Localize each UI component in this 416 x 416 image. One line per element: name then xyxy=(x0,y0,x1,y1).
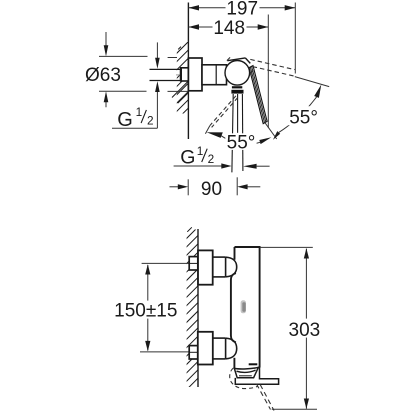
svg-text:303: 303 xyxy=(289,320,321,341)
angle 55 lower arc xyxy=(221,135,261,144)
svg-text:2: 2 xyxy=(147,114,154,128)
label 55deg upper xyxy=(286,106,321,125)
svg-text:Ø63: Ø63 xyxy=(85,65,121,86)
escutcheon upper (front) xyxy=(198,250,213,284)
outlet bracket xyxy=(235,367,278,384)
svg-text:55°: 55° xyxy=(227,132,256,153)
inlet pipe line lower xyxy=(140,351,189,353)
wall hatch (front view) xyxy=(182,223,202,394)
G 1/2 right-side arrow on outlet xyxy=(243,164,257,169)
svg-text:G: G xyxy=(117,109,133,131)
svg-text:G: G xyxy=(180,147,195,169)
shower outlet pipe lines xyxy=(232,94,233,172)
angle 55 upper extension line xyxy=(295,77,329,87)
body bottom-left edge xyxy=(233,358,235,369)
dimension G 1/2 (lower label) xyxy=(180,144,214,169)
label 55deg lower xyxy=(225,133,256,150)
cartridge dome circle xyxy=(225,61,250,86)
flange escutcheon (top view) xyxy=(188,58,202,91)
dimension 197 xyxy=(188,0,295,74)
hex union (top view) xyxy=(181,68,189,81)
wall hatch (top view) xyxy=(172,38,192,124)
dashed water stream xyxy=(257,384,275,411)
lever tip extension line xyxy=(265,123,277,140)
svg-text:148: 148 xyxy=(213,18,245,39)
supply pipe (top view) xyxy=(150,69,181,80)
dashed swivel ellipse xyxy=(230,368,258,388)
dimension G 1/2 (upper label) xyxy=(112,42,157,128)
bottom tick xyxy=(249,363,258,365)
dashed lever (down position) xyxy=(210,96,238,128)
dashed lever (up position) xyxy=(227,56,295,76)
wall line (front view) xyxy=(197,229,199,387)
GROHE logo mark xyxy=(241,300,246,313)
svg-text:90: 90 xyxy=(201,179,222,200)
outlet nipple thread xyxy=(232,86,242,88)
svg-text:1: 1 xyxy=(136,105,143,119)
ball joint upper (front view) xyxy=(226,257,237,277)
neck lower xyxy=(213,338,226,359)
escutcheon lower (front) xyxy=(198,332,213,365)
ball joint lower (front view) xyxy=(226,338,237,359)
hex nut upper xyxy=(189,257,198,270)
dimension 303 xyxy=(260,247,317,409)
lever handle shaft xyxy=(249,66,267,124)
svg-text:55°: 55° xyxy=(289,108,318,129)
mixer body (front view) xyxy=(235,247,260,368)
lever cap xyxy=(227,58,250,64)
thread tick xyxy=(176,74,181,76)
svg-text:1: 1 xyxy=(197,144,204,158)
svg-text:2: 2 xyxy=(208,152,215,166)
wall line (top view) xyxy=(187,3,189,140)
dimension Ø63 xyxy=(99,32,188,107)
dimension 150±15 xyxy=(147,265,149,351)
body left edge between inlets xyxy=(231,273,236,342)
svg-text:150±15: 150±15 xyxy=(114,300,177,321)
dimension 90 xyxy=(170,177,261,195)
body pipe (top view) xyxy=(202,65,227,85)
svg-text:197: 197 xyxy=(226,0,258,20)
inlet pipe line upper xyxy=(142,262,190,264)
hex nut lower xyxy=(189,346,198,359)
angle 55 upper arc xyxy=(279,97,317,132)
dimension 148 xyxy=(188,15,268,128)
outlet cup xyxy=(234,367,258,378)
neck upper xyxy=(213,257,226,277)
